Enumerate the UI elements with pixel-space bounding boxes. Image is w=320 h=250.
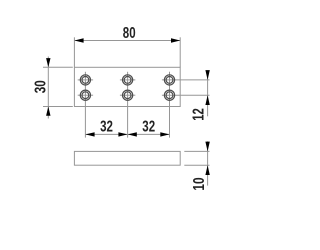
dim 30 dimension line (47, 57, 49, 119)
svg-text:12: 12 (191, 108, 208, 121)
dim 80 arrow right (171, 38, 180, 42)
svg-text:30: 30 (32, 80, 49, 93)
dim 12 arrow bottom (205, 95, 209, 105)
dim 10 arrow top (205, 142, 209, 152)
hole row1 col2 (123, 75, 133, 85)
crosshair hole row2 col1 (78, 94, 93, 96)
hole row2 col3 (164, 90, 174, 100)
svg-text:10: 10 (191, 177, 208, 190)
dim 32 arrow far left (85, 132, 94, 136)
dim 80 arrow left (74, 38, 83, 42)
crosshair hole row1 col2 (120, 79, 135, 81)
dim 30 arrow bottom (46, 107, 50, 116)
dim 30 extension line bottom (43, 106, 73, 108)
centerline column 1 (84, 72, 86, 138)
centerline column 3 (169, 72, 171, 138)
crosshair + extension line row1 col3 (162, 79, 210, 81)
crosshair + extension line row2 col3 (162, 94, 210, 96)
dim 80 dimension line (74, 40, 180, 42)
dim 12 dimension line (207, 71, 209, 117)
dim 10 extension line bottom (184, 164, 209, 166)
dim 80 extension line left (73, 37, 75, 67)
dim 32 arrows middle bowtie (118, 132, 127, 136)
centerline column 2 (127, 72, 129, 138)
hole row2 col1 (80, 90, 90, 100)
svg-text:80: 80 (123, 25, 136, 42)
dim 30 arrow top (46, 58, 50, 67)
dim 10 extension line top (184, 150, 209, 152)
dim 80 extension line right (179, 37, 181, 67)
svg-text:32: 32 (100, 119, 113, 136)
plate front view outline (74, 67, 180, 106)
dim 10 arrow bottom (205, 165, 209, 175)
dim 32 arrow far right (160, 132, 169, 136)
crosshair hole row1 col1 (78, 79, 93, 81)
hole row1 col1 (80, 75, 90, 85)
plate bottom view outline (74, 151, 180, 165)
svg-text:32: 32 (142, 119, 155, 136)
crosshair hole row2 col2 (120, 94, 135, 96)
dim 32 dimension line (85, 133, 169, 135)
dim 10 dimension line (207, 141, 209, 185)
hole row2 col2 (123, 90, 133, 100)
dim 30 extension line top (43, 66, 73, 68)
hole row1 col3 (164, 75, 174, 85)
dim 12 arrow top (205, 70, 209, 80)
